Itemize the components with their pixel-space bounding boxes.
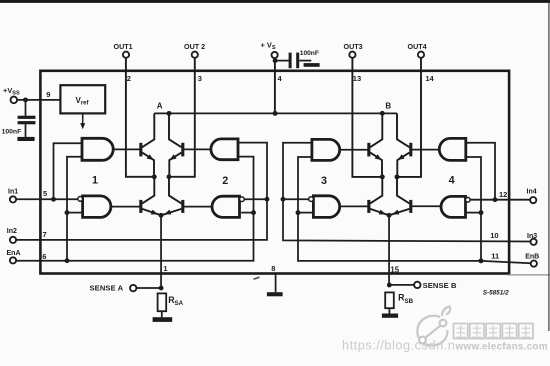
ground (pin 8) (267, 292, 283, 296)
bridge B left output node (380, 174, 385, 179)
ground (Vs cap) (304, 63, 320, 67)
wire EnB pin 11 to gate 3 lower inputs (298, 157, 531, 263)
svg-text:2: 2 (127, 74, 131, 83)
svg-text:3: 3 (198, 74, 202, 83)
scan artifact line right of box bottom (507, 274, 550, 276)
junction EnB gate3 lower (296, 210, 301, 215)
wire +Vs to decoupling cap (275, 60, 289, 62)
terminal In1 circle (10, 196, 16, 202)
terminal OUT4 circle (418, 52, 424, 58)
svg-text:RSA: RSA (168, 295, 183, 307)
junction +Vss to cap (23, 97, 28, 102)
junction sense B (387, 283, 392, 288)
wire gate2 upper output to Q base (184, 148, 211, 150)
wire In2 pin 7 to gate 2 inputs (16, 143, 267, 240)
svg-text:A: A (157, 102, 163, 111)
wire In1 pin 5 to gate 1 bubble (16, 198, 78, 200)
svg-text:5: 5 (43, 189, 47, 198)
bridge A left output node (152, 174, 157, 179)
wire EnB to gate 4 inputs (466, 157, 481, 261)
resistor RSB (385, 292, 394, 308)
svg-text:8: 8 (271, 264, 275, 273)
svg-text:4: 4 (449, 174, 455, 186)
svg-text:OUT 2: OUT 2 (184, 42, 205, 51)
node B junction (380, 111, 385, 116)
wire EnA gate2 lower input (241, 212, 253, 214)
wire In3 pin 10 to gate 3 inputs (283, 143, 531, 242)
svg-text:14: 14 (425, 74, 434, 83)
svg-text:+VSS: +VSS (3, 86, 20, 97)
node A junction (167, 111, 172, 116)
junction EnB gate4 vertical (479, 258, 484, 263)
bridge A upper-right transistor (181, 143, 184, 157)
svg-text:1: 1 (163, 264, 167, 273)
junction EnA gate2 lower (251, 210, 256, 215)
terminal EnB circle (531, 261, 537, 267)
junction EnA gate1 lower (65, 210, 70, 215)
bridge A emitter junction (159, 213, 164, 218)
watermark elecfans logo (417, 307, 450, 346)
svg-text:6: 6 (42, 252, 46, 261)
wire gate3 upper output to Q base (340, 149, 368, 151)
svg-text:9: 9 (46, 90, 50, 99)
bridge B lower-left transistor (367, 200, 370, 213)
terminal OUT1 circle (123, 52, 129, 58)
svg-text:www.elecfans.com: www.elecfans.com (455, 341, 548, 352)
wire In1 to gate1 upper input (54, 143, 83, 199)
bridge B emitter junction (387, 213, 392, 218)
wire In3 to gate 3 bubble (283, 198, 309, 200)
wire EnA to gate 1 inputs (67, 157, 82, 261)
scan artifact dash (254, 277, 260, 279)
gate2 lower input bubble (240, 197, 245, 202)
wire OUT4 pin 14 to bridge B right output node (397, 58, 421, 177)
top border strip (0, 0, 550, 3)
terminal In4 circle (530, 197, 536, 203)
wire OUT1 pin 2 to bridge A left output node (126, 58, 154, 177)
svg-text:11: 11 (491, 251, 499, 260)
block Vref (60, 85, 105, 113)
gate block 2 upper AND (211, 139, 238, 160)
terminal OUT2 circle (192, 52, 198, 58)
junction EnB gate4 lower (479, 210, 484, 215)
wire GND pin 8 (275, 274, 277, 292)
capacitor 100nF (Vs) plate 2 (296, 53, 299, 69)
wire +Vs pin 4 down to supply rail (274, 58, 276, 113)
svg-text:+ VS: + VS (261, 41, 276, 52)
terminal In2 circle (10, 237, 16, 243)
ground (RSB) (382, 314, 398, 318)
wire In4 to gate4 upper input (466, 143, 495, 200)
terminal +Vs circle (272, 52, 278, 58)
gate1 lower input bubble (78, 197, 83, 202)
terminal +Vss circle (11, 97, 18, 104)
bridge B right output node (395, 174, 400, 179)
capacitor 100nF (Vss) plate 2 (18, 121, 36, 124)
wire OUT3 pin 13 to bridge B left output node (352, 58, 382, 177)
svg-text:SENSE A: SENSE A (90, 284, 124, 293)
wire In4 pin 12 line (470, 199, 530, 201)
svg-text:S-5851/2: S-5851/2 (483, 289, 509, 296)
svg-text:15: 15 (390, 265, 399, 274)
capacitor 100nF (Vs) plate 1 (289, 53, 292, 69)
svg-text:2: 2 (222, 175, 228, 187)
scan page border right (548, 3, 550, 332)
wire RSA to ground (161, 311, 163, 317)
bridge A right output node (167, 174, 172, 179)
bridge B lower-right transistor (409, 200, 412, 213)
wire In2 to gate 2 bubble (244, 198, 267, 200)
terminal EnA circle (10, 257, 16, 263)
bridge B upper-right transistor (409, 143, 412, 157)
svg-text:12: 12 (499, 190, 507, 199)
svg-text:13: 13 (353, 74, 361, 83)
svg-text:In4: In4 (527, 189, 537, 196)
wire SENSE B to node (389, 284, 414, 286)
terminal OUT3 circle (349, 52, 355, 58)
gate block 3 upper AND (312, 139, 340, 160)
bridge A upper-left transistor (139, 143, 142, 157)
gate block 1 upper AND (82, 138, 113, 160)
wire Vss cap to ground (25, 124, 27, 137)
svg-text:3: 3 (321, 175, 327, 187)
wire gate1 upper output to Q base (113, 148, 139, 150)
svg-text:Vref: Vref (76, 96, 90, 107)
svg-text:100nF: 100nF (300, 50, 319, 57)
wire EnB gate3 lower input (298, 212, 314, 214)
resistor RSA (158, 293, 167, 311)
gate block 4 upper AND (439, 138, 466, 160)
gate4 lower input bubble (465, 197, 470, 202)
svg-text:1: 1 (92, 174, 98, 186)
svg-text:B: B (385, 102, 391, 111)
svg-text:OUT4: OUT4 (408, 42, 427, 51)
svg-text:10: 10 (490, 231, 498, 240)
junction In3 bubble line (281, 197, 286, 202)
svg-text:EnA: EnA (7, 250, 21, 257)
bridge A lower-right transistor (181, 200, 184, 213)
junction sense A (159, 286, 164, 291)
wire sense B pin 15 (388, 215, 390, 285)
wire +Vss pin 9 to Vref block (17, 99, 60, 101)
wire OUT2 pin 3 to bridge A right output node (169, 58, 195, 177)
wire gate2 lower output to Q base (184, 206, 212, 208)
wire gate4 lower output to Q base (412, 205, 441, 207)
terminal In3 circle (531, 239, 537, 245)
junction In4 branch (493, 197, 498, 202)
wire sense A pin 1 (160, 215, 162, 288)
gate3 lower input bubble (309, 197, 314, 202)
svg-text:100nF: 100nF (2, 129, 22, 136)
gate block 2 lower AND (212, 196, 240, 217)
svg-text:EnB: EnB (525, 253, 539, 260)
wire EnA pin 6 to gate 2 lower inputs (16, 157, 253, 261)
Vref output arrow (82, 114, 84, 124)
wire gate4 upper output to Q base (412, 149, 439, 151)
supply rail Vs (154, 112, 397, 114)
junction In1 branch (51, 197, 56, 202)
wire RSB to ground (388, 308, 390, 313)
terminal SENSE A circle (130, 285, 136, 291)
watermark chinese text 电子发烧友 (454, 324, 468, 339)
svg-text:In2: In2 (7, 228, 17, 235)
svg-text:OUT3: OUT3 (344, 42, 363, 51)
wire +Vss cap drop (25, 100, 27, 116)
ground (Vss cap) (17, 137, 34, 141)
svg-text:RSB: RSB (398, 293, 413, 305)
bridge B upper-left transistor (367, 143, 370, 157)
junction pin4 on rail (273, 111, 278, 116)
wire gate3 lower output to Q base (340, 205, 368, 207)
junction In2 bubble line (265, 197, 270, 202)
svg-text:In1: In1 (8, 189, 18, 196)
ground (RSA) (153, 317, 173, 322)
wire EnA gate1 lower input (67, 212, 82, 214)
gate block 3 lower AND (313, 196, 339, 218)
wire gate1 lower output to Q base (111, 206, 140, 208)
svg-text:4: 4 (278, 74, 283, 83)
capacitor 100nF (Vss) plate 1 (18, 116, 36, 119)
wire EnB gate4 lower input (466, 212, 481, 214)
wire cap to ground (299, 60, 311, 62)
svg-text:SENSE B: SENSE B (423, 281, 457, 290)
gate block 1 lower AND (83, 196, 111, 218)
junction EnA near branch (65, 258, 70, 263)
IC package outline box (40, 71, 509, 274)
bridge A lower-left transistor (139, 200, 142, 213)
svg-text:7: 7 (43, 230, 47, 239)
wire SENSE A to node (137, 287, 162, 289)
junction +Vs to capacitor (273, 58, 278, 63)
svg-text:OUT1: OUT1 (114, 42, 133, 51)
gate block 4 lower AND (441, 196, 466, 217)
terminal SENSE B circle (414, 282, 420, 288)
